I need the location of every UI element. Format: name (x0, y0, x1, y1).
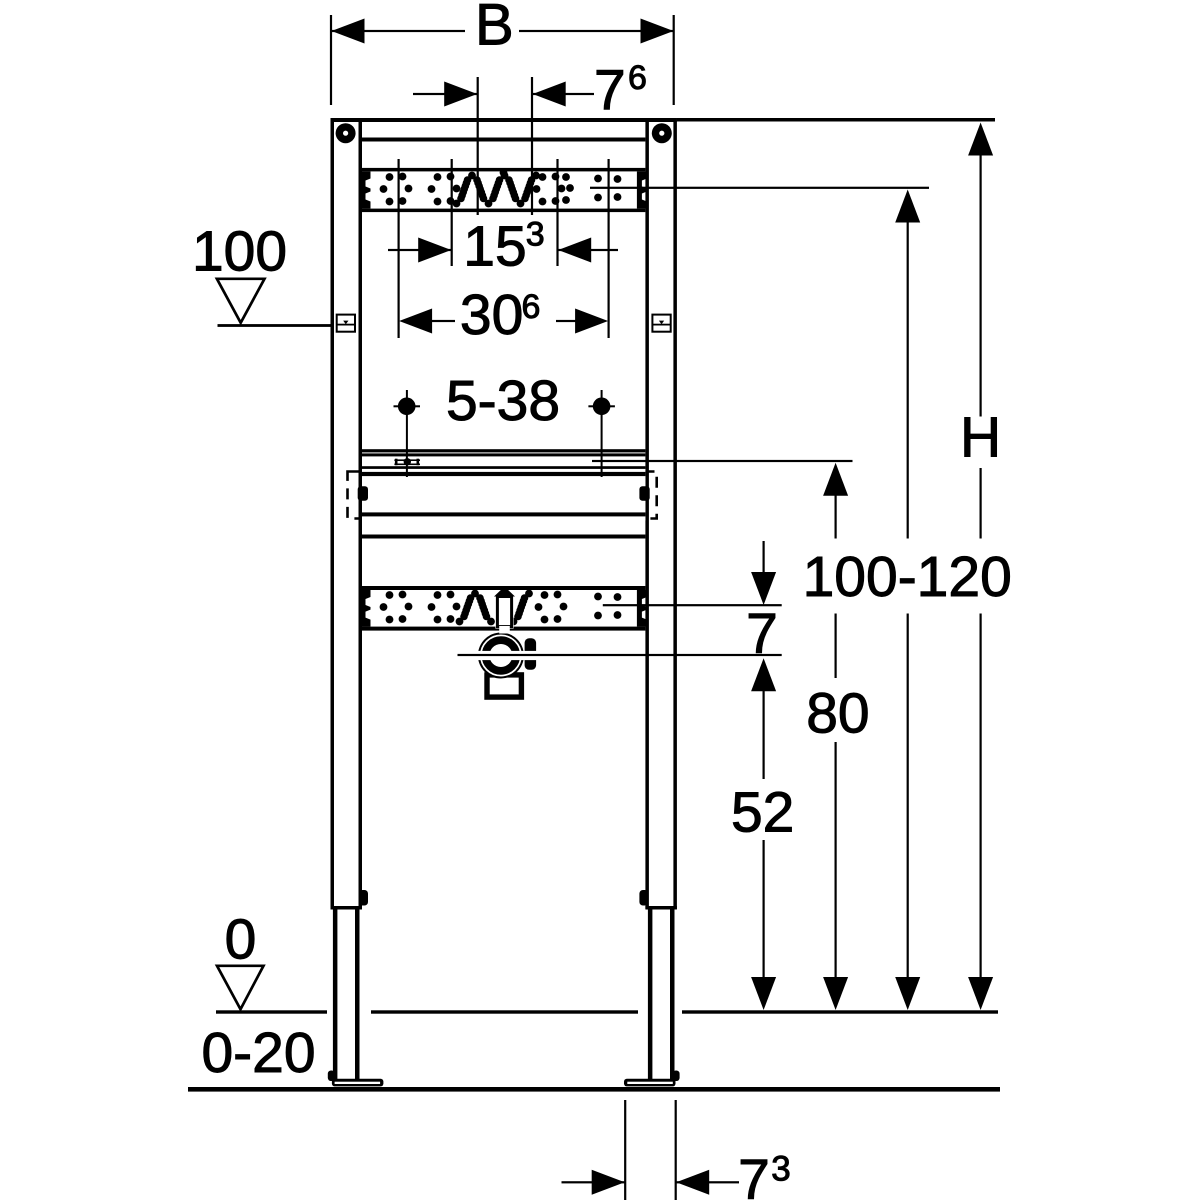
svg-text:7: 7 (738, 1148, 770, 1200)
svg-text:5-38: 5-38 (446, 369, 560, 433)
svg-text:3: 3 (526, 216, 545, 254)
svg-text:80: 80 (806, 682, 869, 746)
svg-text:15: 15 (463, 214, 526, 278)
svg-text:B: B (475, 0, 514, 58)
svg-text:0: 0 (225, 908, 257, 972)
svg-text:100-120: 100-120 (803, 545, 1012, 609)
svg-text:100: 100 (192, 220, 287, 284)
svg-text:6: 6 (628, 59, 647, 97)
svg-text:0-20: 0-20 (201, 1021, 315, 1085)
svg-text:30: 30 (460, 283, 523, 347)
svg-text:7: 7 (594, 59, 626, 123)
svg-text:6: 6 (522, 288, 541, 326)
svg-text:3: 3 (771, 1150, 790, 1189)
svg-text:7: 7 (746, 602, 778, 666)
svg-text:H: H (960, 406, 1001, 470)
svg-text:52: 52 (731, 781, 794, 845)
